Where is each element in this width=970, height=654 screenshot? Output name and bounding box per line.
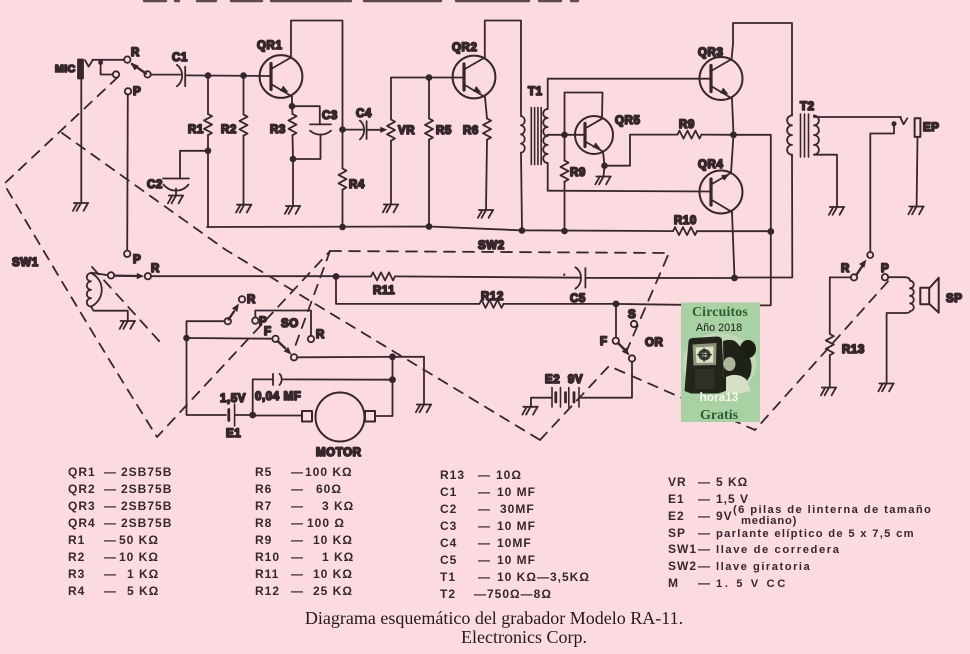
record/play head coil — [87, 273, 102, 307]
ground (T2 secondary) — [829, 207, 844, 215]
svg-text:E1: E1 — [226, 428, 241, 440]
wire T2 primary bottom to QR4 emitter node — [735, 155, 793, 278]
contact (spare, mic switch) — [113, 71, 119, 77]
svg-text:5 KΩ: 5 KΩ — [127, 584, 159, 598]
resistor R6 — [483, 119, 491, 211]
svg-text:—: — — [104, 482, 117, 496]
contact arm end (rotary) — [629, 355, 635, 361]
svg-text:P: P — [133, 86, 141, 98]
node T1 primary bottom on rail — [519, 227, 526, 234]
ground (EP) — [908, 207, 923, 215]
svg-text:10Ω: 10Ω — [496, 468, 522, 482]
svg-text:T2: T2 — [440, 587, 456, 601]
svg-text:E1: E1 — [668, 492, 685, 506]
battery E2 — [552, 388, 579, 408]
svg-text:—: — — [478, 519, 491, 533]
svg-text:MOTOR: MOTOR — [316, 447, 362, 459]
speaker SP icon — [920, 278, 938, 313]
capacitor C3 (parallel R3) — [292, 106, 331, 159]
svg-text:R1: R1 — [68, 533, 85, 547]
wire output node to rail drop — [734, 135, 771, 232]
contact R (mic switch) — [124, 56, 130, 62]
wire QR5 emitter — [603, 152, 605, 166]
contact R (motor switch upper) — [239, 296, 245, 302]
transformer T2 core — [801, 114, 809, 157]
svg-text:F: F — [264, 326, 272, 338]
wire T1 secondary bottom — [547, 163, 549, 191]
wire VR top to QR2 base — [391, 77, 464, 79]
speaker SP coil — [887, 277, 914, 382]
wire R12 to S/F switch node — [504, 303, 617, 305]
resistor R12 — [480, 300, 504, 308]
svg-text:10 MF: 10 MF — [497, 485, 536, 499]
ground (QR5 emitter) — [595, 166, 610, 185]
wire QR4 collector to output node — [731, 135, 734, 173]
svg-text:100 Ω: 100 Ω — [307, 516, 345, 530]
wire arm to battery E2 — [580, 362, 632, 398]
svg-text:QR1: QR1 — [68, 465, 96, 479]
parts list column 2 — [255, 465, 354, 598]
wire R12 line continues under watermark — [616, 303, 681, 306]
parts list column 4 — [668, 475, 749, 590]
svg-text:R: R — [841, 263, 850, 275]
svg-text:1,5V: 1,5V — [220, 393, 246, 405]
svg-text:SW1: SW1 — [668, 542, 697, 556]
wire R11 line left — [336, 276, 371, 278]
wire C1 to QR1 base — [186, 74, 271, 77]
svg-text:10 MF: 10 MF — [497, 519, 536, 533]
microphone jack MIC — [78, 60, 92, 79]
transistor QR1 — [260, 55, 303, 98]
ground (under R3) — [285, 206, 300, 214]
svg-text:Electronics Corp.: Electronics Corp. — [461, 627, 587, 647]
svg-text:—: — — [104, 567, 117, 581]
wire T2 secondary top to EP jack — [814, 116, 901, 118]
switch arm (speaker) with arrow — [856, 260, 866, 276]
wire R1 to supply rail — [207, 151, 209, 227]
svg-text:Año 2018: Año 2018 — [696, 322, 742, 334]
svg-text:9V: 9V — [716, 509, 733, 523]
contact arm pivot (mic switch) — [144, 71, 150, 77]
svg-text:—: — — [291, 516, 304, 530]
resistor R9 (horizontal) — [678, 131, 702, 139]
svg-text:QR1: QR1 — [257, 40, 282, 52]
svg-text:—: — — [698, 526, 711, 540]
transformer T1 primary — [521, 116, 525, 153]
resistor R2 — [240, 76, 248, 205]
svg-text:2SB75B: 2SB75B — [121, 465, 172, 479]
wire C4 feed from QR1 collector column — [343, 129, 363, 131]
node R1 top — [205, 72, 212, 79]
dashed linkage long diagonal — [62, 133, 540, 440]
svg-text:10 KΩ: 10 KΩ — [313, 567, 353, 581]
svg-text:R10: R10 — [255, 550, 280, 564]
svg-text:—: — — [104, 499, 117, 513]
wire R12 branch drop — [336, 277, 480, 304]
svg-text:—: — — [104, 550, 117, 564]
svg-text:R12: R12 — [255, 584, 280, 598]
ground (under R6) — [478, 210, 493, 218]
svg-text:C2: C2 — [440, 502, 457, 516]
svg-text:100 KΩ: 100 KΩ — [305, 465, 353, 479]
svg-text:R5: R5 — [436, 125, 452, 137]
svg-text:—: — — [698, 475, 711, 489]
node bias tap — [561, 132, 568, 139]
svg-text:25 KΩ: 25 KΩ — [313, 584, 353, 598]
svg-text:—: — — [478, 468, 491, 482]
ground (head) — [120, 321, 135, 329]
svg-text:Gratis: Gratis — [700, 408, 739, 423]
svg-text:R6: R6 — [463, 125, 479, 137]
contact head arm — [108, 272, 114, 278]
svg-text:—: — — [291, 584, 304, 598]
node QR5 emitter — [601, 162, 608, 169]
wire R9 to push-pull node — [702, 134, 734, 136]
dashed SW2 boundary — [330, 251, 669, 350]
svg-text:C3: C3 — [440, 519, 457, 533]
node tip stub junction — [98, 60, 103, 65]
svg-text:—: — — [291, 550, 304, 564]
svg-text:—: — — [291, 499, 304, 513]
switch arm (head) with arrow — [114, 273, 144, 279]
contact R (motor switch right) — [308, 336, 314, 342]
transistor QR3 — [700, 57, 743, 100]
svg-text:5 KΩ: 5 KΩ — [716, 475, 748, 489]
svg-text:R2: R2 — [221, 124, 237, 136]
wire mic tip to contact R — [92, 59, 124, 61]
wire P-R bracket over SO — [255, 311, 311, 336]
svg-text:R11: R11 — [373, 285, 395, 297]
svg-text:C2: C2 — [147, 179, 163, 191]
wire QR2 collector loop to T1 — [485, 21, 521, 117]
wire QR1 emitter — [291, 97, 294, 115]
svg-text:30MF: 30MF — [500, 502, 535, 516]
wire EP tip to speaker switch — [870, 124, 894, 252]
svg-text:R9: R9 — [679, 119, 695, 131]
speck — [563, 274, 565, 276]
svg-text:R9: R9 — [570, 167, 586, 179]
svg-text:C4: C4 — [440, 536, 457, 550]
svg-text:2SB75B: 2SB75B — [121, 482, 172, 496]
svg-text:T1: T1 — [528, 86, 543, 98]
dashed linkage SW1 to motor switch — [293, 251, 330, 352]
wire T1 center tap — [548, 134, 562, 136]
supply rail (bottom bus) — [207, 227, 673, 232]
svg-text:OR: OR — [645, 337, 664, 349]
capacitor C1 — [177, 65, 185, 86]
node rail end — [767, 228, 774, 235]
wire node to motor capacitor — [253, 379, 273, 415]
transistor QR5 — [575, 116, 613, 154]
wire QR4 base line — [548, 190, 711, 193]
svg-text:M: M — [668, 576, 679, 590]
resistor R3 — [289, 114, 297, 159]
contact arm top (speaker switch) — [867, 252, 873, 258]
svg-text:QR2: QR2 — [452, 42, 477, 54]
svg-text:R1: R1 — [188, 124, 204, 136]
svg-text:mediano): mediano) — [741, 515, 797, 527]
contact F (rotary) — [613, 338, 619, 344]
svg-text:—: — — [104, 516, 117, 530]
wire QR3 collector loop to T2 primary — [732, 23, 793, 116]
wire head bottom to ground — [91, 307, 128, 321]
contact S — [631, 321, 637, 327]
svg-text:1. 5 V CC: 1. 5 V CC — [716, 578, 788, 590]
svg-text:MIC: MIC — [55, 63, 76, 75]
svg-text:—: — — [291, 533, 304, 547]
svg-text:—: — — [474, 587, 487, 601]
svg-text:R12: R12 — [481, 291, 504, 303]
svg-text:—: — — [478, 536, 491, 550]
wire P bus down to lower P contact — [126, 95, 129, 251]
svg-text:VR: VR — [668, 475, 687, 489]
node R4 bottom on rail — [339, 224, 346, 231]
svg-text:—: — — [291, 465, 304, 479]
ground (motor) — [416, 405, 431, 413]
wire to motor ground — [393, 357, 425, 405]
node R9 bottom on rail — [561, 228, 568, 235]
svg-text:—: — — [104, 465, 117, 479]
cut-off text marks at very top edge — [144, 0, 578, 2]
transformer T2 primary — [787, 116, 792, 155]
svg-text:—: — — [698, 576, 711, 590]
ground (under VR) — [383, 205, 398, 213]
capacitor 0,04 MF — [273, 374, 282, 385]
transformer T2 secondary — [814, 116, 819, 155]
earphone jack EP — [901, 118, 921, 137]
wire R11 to C5 — [395, 276, 580, 277]
svg-text:—: — — [698, 492, 711, 506]
wire EP sleeve to ground — [916, 137, 919, 207]
svg-text:R8: R8 — [255, 516, 272, 530]
capacitor C2 — [163, 179, 189, 196]
svg-text:C3: C3 — [322, 110, 338, 122]
wire QR4 emitter down — [732, 212, 735, 278]
svg-text:E2: E2 — [668, 509, 685, 523]
svg-text:50 KΩ: 50 KΩ — [119, 533, 159, 547]
contact arm end (motor switch) — [291, 354, 297, 360]
motor M — [302, 393, 375, 442]
svg-text:S: S — [628, 309, 636, 321]
ground (SP) — [878, 384, 893, 392]
svg-text:—: — — [478, 485, 491, 499]
svg-text:10 MF: 10 MF — [497, 553, 536, 567]
svg-text:SW1: SW1 — [12, 257, 39, 269]
contact R (lower) — [145, 273, 151, 279]
svg-text:R5: R5 — [255, 465, 272, 479]
node motor column mid — [389, 376, 396, 383]
svg-text:—: — — [291, 567, 304, 581]
node QR1 emitter — [289, 103, 296, 110]
svg-text:F: F — [600, 336, 608, 348]
wire C4 to VR wiper arrow — [368, 127, 388, 133]
svg-text:EP: EP — [923, 122, 940, 134]
switch arm F with arrow — [278, 341, 292, 355]
resistor R9 (vertical) — [561, 135, 569, 231]
svg-text:SP: SP — [668, 526, 686, 540]
svg-text:QR4: QR4 — [698, 159, 723, 171]
svg-text:SW2: SW2 — [668, 559, 697, 573]
transformer T1 secondary — [543, 109, 548, 163]
parts list column 1 — [68, 465, 172, 598]
wire stub to spare contact — [101, 63, 113, 75]
wire R contact to R13 — [830, 277, 851, 334]
svg-text:R3: R3 — [270, 124, 286, 136]
svg-text:0,04 MF: 0,04 MF — [255, 391, 301, 403]
resistor R1 — [204, 76, 212, 151]
wire arm to C1 — [151, 74, 181, 76]
svg-text:QR2: QR2 — [68, 482, 96, 496]
svg-text:10MF: 10MF — [497, 536, 532, 550]
svg-text:—: — — [291, 482, 304, 496]
node E1 column — [183, 335, 190, 342]
wire QR5 collector loop (diode tie) — [565, 93, 603, 135]
svg-text:Circuitos: Circuitos — [692, 304, 748, 319]
svg-text:R: R — [247, 294, 256, 306]
svg-text:Diagrama esquemático del graba: Diagrama esquemático del grabador Modelo… — [305, 608, 683, 628]
svg-text:—: — — [478, 570, 491, 584]
wire capacitor to motor-right column — [283, 378, 392, 380]
svg-text:T2: T2 — [800, 101, 815, 113]
wire E1 to motor node — [236, 414, 253, 416]
wire node to contact F — [615, 304, 617, 338]
svg-text:—: — — [478, 553, 491, 567]
ground (under R2) — [236, 205, 251, 213]
svg-text:C1: C1 — [172, 52, 188, 64]
capacitor C4 — [360, 121, 367, 140]
watermark box — [681, 303, 760, 423]
wire column to motor right terminal — [375, 357, 393, 416]
svg-text:E2 9V: E2 9V — [545, 374, 583, 386]
svg-text:10 KΩ: 10 KΩ — [313, 533, 353, 547]
wire T1 primary bottom to rail — [521, 153, 522, 231]
svg-text:R11: R11 — [255, 567, 279, 581]
dashed linkage SW1 — [4, 77, 330, 437]
svg-text:C4: C4 — [356, 108, 372, 120]
parts list column 4 descriptions — [716, 504, 932, 590]
svg-text:R4: R4 — [68, 584, 85, 598]
svg-text:R6: R6 — [255, 482, 272, 496]
svg-text:R13: R13 — [440, 468, 465, 482]
svg-text:T1: T1 — [440, 570, 456, 584]
wire node to contact F — [187, 337, 273, 340]
svg-text:QR3: QR3 — [68, 499, 96, 513]
svg-text:R9: R9 — [255, 533, 272, 547]
node R1 bottom / C2 tap — [205, 148, 212, 155]
node R5 bottom on rail — [426, 223, 433, 230]
svg-text:2SB75B: 2SB75B — [121, 516, 172, 530]
wire T2 secondary bottom to ground — [814, 155, 837, 207]
node C4 junction — [339, 126, 346, 133]
wire QR5 base to bias tap — [565, 134, 586, 136]
node SW2 rotary feed — [613, 301, 620, 308]
svg-text:—: — — [698, 509, 711, 523]
switch arm (motor) with arrow — [229, 304, 240, 320]
svg-text:1 KΩ: 1 KΩ — [322, 550, 354, 564]
resistor R5 — [425, 78, 433, 227]
contact F (motor switch) — [272, 336, 278, 342]
svg-text:parlante elíptico de 5 x 7,5 c: parlante elíptico de 5 x 7,5 cm — [716, 528, 915, 540]
svg-text:C1: C1 — [440, 485, 457, 499]
svg-text:—: — — [104, 533, 117, 547]
resistor R4 — [339, 130, 347, 227]
resistor R13 — [826, 334, 834, 388]
wire QR5 emitter to R9 horizontal — [605, 135, 678, 166]
node R11/R12 branch — [333, 273, 340, 280]
transistor QR2 — [453, 56, 496, 99]
resistor R11 — [371, 272, 395, 280]
svg-text:VR: VR — [398, 125, 415, 137]
svg-text:SW2: SW2 — [478, 240, 505, 252]
contact P (mic switch) — [125, 88, 131, 94]
wire rail right of R10 — [697, 230, 771, 232]
capacitor C5 — [575, 267, 585, 288]
contact arm pivot (motor switch) — [225, 318, 231, 324]
transistor QR4 — [700, 171, 743, 214]
svg-text:R4: R4 — [349, 179, 365, 191]
ground (R13) — [821, 388, 836, 396]
wire arm end to ground column — [297, 356, 392, 359]
wire QR2 emitter to R6 — [485, 97, 487, 119]
ground (under C2) — [168, 196, 183, 204]
switch arm SW1a with arrow — [131, 63, 147, 74]
svg-text:—: — — [698, 559, 711, 573]
node QR4 emitter junction — [731, 275, 738, 282]
svg-text:hora13: hora13 — [700, 390, 739, 404]
svg-text:QR4: QR4 — [68, 516, 96, 530]
svg-text:C5: C5 — [440, 553, 457, 567]
node EP tip contact — [892, 121, 897, 126]
svg-text:60Ω: 60Ω — [316, 482, 342, 496]
dashed linkage SW2 to speaker switch — [540, 278, 891, 440]
wire MIC ground lead — [80, 79, 82, 204]
contact P (lower, play head) — [124, 251, 130, 257]
wire R contact to R11 node — [151, 275, 336, 277]
svg-text:2SB75B: 2SB75B — [121, 499, 172, 513]
svg-text:R3: R3 — [68, 567, 85, 581]
switch arm (rotary) with arrow — [618, 343, 630, 356]
svg-text:QR3: QR3 — [698, 47, 723, 59]
wire QR1 collector loop to C4 node — [291, 21, 343, 130]
svg-text:R7: R7 — [255, 499, 272, 513]
battery E1 — [229, 404, 235, 426]
ground (E2) — [522, 407, 537, 415]
svg-text:R2: R2 — [68, 550, 85, 564]
svg-text:SP: SP — [946, 293, 963, 305]
svg-text:R13: R13 — [842, 344, 865, 356]
svg-text:P: P — [881, 263, 889, 275]
svg-text:750Ω—8Ω: 750Ω—8Ω — [487, 587, 552, 601]
svg-text:P: P — [133, 254, 141, 266]
wire T1 secondary top to QR3 base — [548, 79, 711, 109]
node R3 bottom — [290, 156, 297, 163]
svg-text:10 KΩ: 10 KΩ — [119, 550, 159, 564]
svg-text:3 KΩ: 3 KΩ — [322, 499, 354, 513]
resistor R10 (in rail) — [673, 227, 697, 235]
contact R (speaker switch) — [851, 274, 857, 280]
contact P (speaker switch) — [882, 274, 888, 280]
wire C5 to QR4 emitter node — [586, 277, 734, 279]
svg-text:—: — — [698, 542, 711, 556]
transformer T1 core — [531, 108, 541, 165]
wire head top to arm contact — [91, 273, 108, 276]
node R5 top — [426, 74, 433, 81]
dashed linkage head switch — [92, 267, 160, 342]
wire rail end drop to R12 line — [757, 232, 771, 306]
svg-text:R: R — [131, 47, 140, 59]
wire node down to E1 — [187, 338, 227, 415]
node E1/motor junction — [249, 412, 256, 419]
